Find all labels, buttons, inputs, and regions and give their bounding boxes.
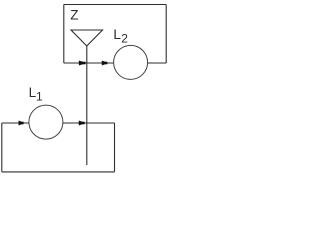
svg-text:Z: Z: [70, 7, 78, 22]
wire: antenna feed vertical line: [86, 46, 88, 165]
svg-text:L: L: [113, 27, 121, 42]
wire: top loop top edge: [64, 4, 166, 6]
wire: bottom loop bottom edge: [2, 171, 115, 173]
label L1: [29, 85, 43, 104]
svg-text:1: 1: [36, 89, 43, 103]
wire: bottom loop top segment (left of L1): [2, 122, 29, 124]
lamp L1 circle: [29, 105, 63, 139]
wire: bottom loop top segment (right of L1): [63, 122, 115, 124]
label L2: [113, 27, 128, 46]
wire: top loop right edge: [165, 5, 167, 64]
wire: bottom loop left edge: [1, 123, 3, 172]
wire: top loop bottom segment (left of L2): [64, 62, 114, 64]
current arrow: bottom loop toward node: [79, 121, 86, 126]
lamp L2 circle: [114, 45, 148, 79]
wire: top loop bottom segment (right of L2): [148, 62, 167, 64]
current arrow: top loop into L2: [102, 61, 109, 66]
current arrow: bottom loop into L1: [19, 121, 25, 126]
wire: bottom loop right edge: [114, 123, 116, 172]
antenna triangle Z: [71, 30, 103, 46]
wire: top loop left edge: [63, 5, 65, 64]
current arrow: top loop toward node: [79, 61, 87, 66]
svg-text:2: 2: [121, 32, 128, 46]
